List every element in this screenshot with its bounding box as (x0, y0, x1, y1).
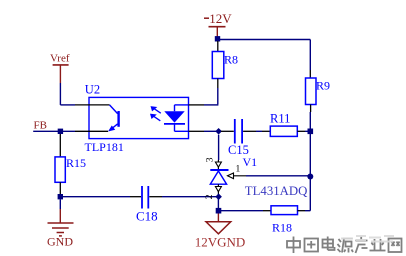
svg-text:FB: FB (34, 120, 47, 132)
opto pin LED anode (right top) (189, 104, 205, 106)
源 (338, 239, 354, 253)
wire top rail to right (218, 39, 311, 41)
optocoupler U2 box (89, 97, 189, 138)
svg-text:Vref: Vref (50, 52, 70, 64)
wire R9 down to R11 junction (309, 112, 311, 129)
resistor R9 (306, 78, 317, 112)
svg-text:R11: R11 (270, 112, 290, 126)
电 (323, 237, 335, 251)
junction ref / right rail (307, 174, 313, 180)
svg-text:2: 2 (205, 194, 215, 199)
wire C18 to V1 anode junction (162, 196, 216, 198)
wire junction to R18 (221, 210, 263, 212)
junction R18 rail / 12VGND (216, 208, 222, 214)
svg-text:R9: R9 (316, 79, 330, 93)
svg-text:TL431ADQ: TL431ADQ (245, 184, 308, 198)
junction opto cathode / C15 / V1 (215, 128, 222, 135)
wire junction to junction (217, 197, 219, 211)
resistor R11 (262, 126, 305, 136)
opto pin emitter (left bottom) (75, 130, 108, 132)
svg-text:3: 3 (206, 157, 216, 162)
shunt regulator V1 TL431 (210, 135, 246, 195)
junction -12V / R8 / top rail (215, 36, 220, 41)
svg-text:GND: GND (47, 235, 73, 249)
wire Vref to opto collector pin (60, 83, 75, 105)
svg-text:12VGND: 12VGND (195, 234, 246, 249)
ground GND (47, 199, 74, 248)
产 (356, 237, 368, 254)
wire opto cathode to junction (204, 130, 216, 132)
opto phototransistor (108, 105, 120, 132)
wire C15 to R11 (256, 130, 262, 132)
LED emission arrows (151, 107, 161, 121)
capacitor C15 (221, 119, 256, 144)
capacitor C18 (130, 186, 162, 209)
opto pin collector (left top) (75, 104, 110, 106)
svg-text:1: 1 (236, 165, 241, 175)
svg-text:R18: R18 (272, 221, 292, 235)
svg-text:C18: C18 (136, 209, 158, 224)
watermark light overlay (second tiled copy) (341, 236, 394, 242)
中 (287, 237, 300, 254)
resistor R18 (263, 206, 305, 215)
wire R8 to opto pin corner (204, 88, 218, 105)
junction FB / R15 (58, 129, 63, 134)
业 (370, 239, 386, 251)
svg-text:V1: V1 (243, 155, 258, 169)
网 (389, 239, 402, 253)
wire ref pin to right rail (246, 175, 308, 177)
wire right rail R11 junction to ref junction (309, 134, 311, 174)
svg-text:R8: R8 (224, 53, 238, 67)
power flag Vref (50, 52, 70, 83)
power flag -12V (204, 11, 232, 37)
wire right rail ref junction down to R18 (305, 179, 310, 211)
junction R11 / right rail (308, 129, 314, 135)
wire R11 to right rail (305, 130, 308, 132)
junction V1 anode / C18 rail (215, 193, 222, 200)
svg-text:12V: 12V (209, 11, 232, 26)
junction R15 / C18 / GND (58, 194, 63, 199)
resistor R15 (55, 134, 65, 194)
wire FB to opto emitter pin (33, 130, 75, 132)
svg-text:U2: U2 (85, 83, 100, 97)
国 (305, 239, 319, 252)
svg-text:TLP181: TLP181 (85, 140, 124, 154)
svg-text:R15: R15 (66, 156, 86, 170)
opto LED (164, 105, 189, 131)
wire bottom rail R15 to C18 (63, 196, 131, 198)
resistor R8 (212, 41, 224, 88)
wire right rail down to R9 (309, 40, 311, 79)
watermark 中国电源产业网 (287, 237, 402, 254)
power flag 12VGND (195, 214, 246, 250)
opto pin LED cathode (right bottom) (189, 130, 205, 132)
